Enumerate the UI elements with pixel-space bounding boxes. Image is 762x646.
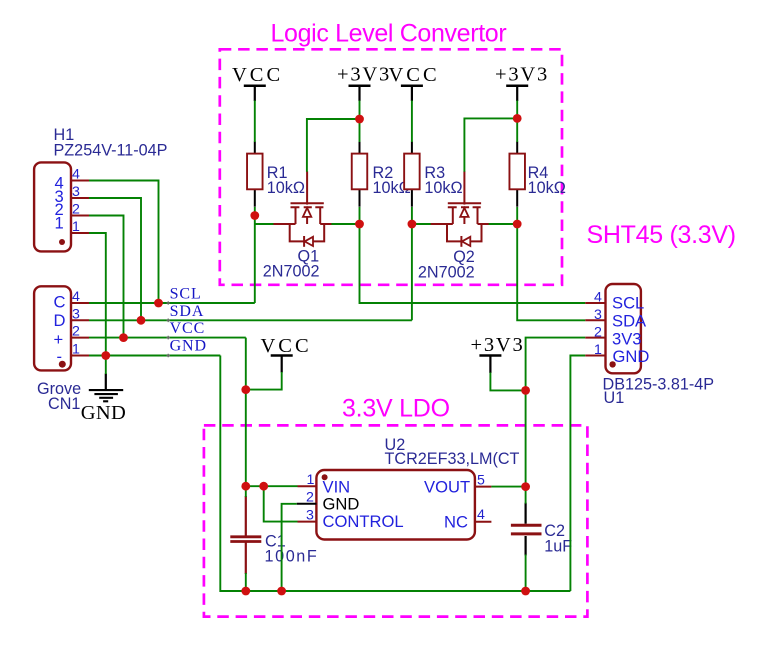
wire VIN row <box>246 485 298 487</box>
wire C2 top <box>525 487 527 504</box>
svg-text:1: 1 <box>72 342 80 358</box>
junction bus U2 GND <box>277 587 286 596</box>
U2 pin 3 stub <box>298 521 317 523</box>
net label SCL <box>167 285 202 305</box>
wire C1 top <box>245 486 247 497</box>
CN1 pin 1 stub <box>71 355 89 357</box>
H1 pin-1 marker <box>59 239 65 245</box>
net label GND <box>167 338 207 358</box>
svg-text:Logic Level Convertor: Logic Level Convertor <box>271 20 507 48</box>
net label SDA <box>167 303 205 322</box>
svg-text:10kΩ: 10kΩ <box>267 179 305 197</box>
svg-text:CN1: CN1 <box>48 395 80 413</box>
wire VOUT to C2 column <box>491 486 525 488</box>
wire U2 GND pin drop <box>282 504 297 591</box>
wire GND stem <box>105 356 107 375</box>
junction SDA row <box>137 316 146 325</box>
junction VCC tap <box>241 385 250 394</box>
wire Q1 source to gate wire <box>255 223 274 225</box>
U2 pin 2 stub (black) <box>297 503 317 505</box>
power VCC top-right <box>389 64 440 101</box>
svg-text:CONTROL: CONTROL <box>323 512 404 531</box>
svg-text:SCL: SCL <box>170 285 202 302</box>
junction R1 bottom <box>250 211 259 220</box>
wire GND row <box>89 355 220 357</box>
junction bus C1 <box>241 587 250 596</box>
svg-text:1: 1 <box>307 472 315 488</box>
transistor Q1 <box>263 171 332 280</box>
ground symbol <box>81 374 126 425</box>
U1 pin 3 stub <box>585 319 605 321</box>
regulator U2 <box>297 436 520 540</box>
svg-text:GND: GND <box>170 338 207 355</box>
U1 pin 4 stub <box>585 302 605 304</box>
resistor R1 <box>247 142 305 207</box>
junction Q2 gate +3V3 <box>513 114 522 123</box>
svg-text:SDA: SDA <box>612 312 647 331</box>
svg-text:+3V3: +3V3 <box>337 64 391 86</box>
svg-text:1uF: 1uF <box>544 538 572 556</box>
svg-text:TCR2EF33,LM(CT: TCR2EF33,LM(CT <box>385 450 520 468</box>
wire Q2 drain <box>489 223 518 225</box>
connector CN1 Grove <box>34 286 89 413</box>
svg-text:+3V3: +3V3 <box>495 64 549 86</box>
svg-text:3: 3 <box>594 307 602 323</box>
svg-text:C: C <box>54 292 66 311</box>
junction GND row <box>101 351 110 360</box>
U1 pin-1 marker <box>609 361 615 367</box>
svg-text:GND: GND <box>323 494 360 513</box>
title Logic Level Convertor <box>271 20 507 48</box>
wire VCC middle symbol tap <box>246 372 282 390</box>
junction bus C2 <box>521 587 530 596</box>
svg-text:3V3: 3V3 <box>612 329 642 348</box>
svg-text:VCC: VCC <box>232 64 283 86</box>
svg-text:2: 2 <box>594 325 602 341</box>
wire +3V3-2 column through R4 <box>517 101 585 321</box>
junction Q1 drain <box>355 220 364 229</box>
wire SCL row <box>89 302 255 304</box>
wire H1 pin3 to SDA column <box>89 198 141 320</box>
U2 pin 1 stub <box>298 485 317 487</box>
svg-text:2N7002: 2N7002 <box>263 263 320 281</box>
junction VIN right <box>259 482 268 491</box>
U1 pin 2 stub <box>585 337 605 339</box>
power +3V3 top-right <box>495 64 549 102</box>
U2 pin 5 stub <box>475 486 492 488</box>
wire VCC column down to VIN <box>245 338 247 487</box>
dashed box 3.3V LDO <box>204 425 588 616</box>
svg-text:4: 4 <box>594 290 602 306</box>
wire VCC row <box>89 337 246 339</box>
CN1 pin 4 stub <box>71 302 89 304</box>
resistor R4 <box>509 142 565 207</box>
resistor R2 <box>352 142 411 207</box>
H1 pin 2 stub <box>71 215 89 217</box>
wire H1 pin2 to VCC column <box>89 216 124 338</box>
svg-text:GND: GND <box>81 402 126 424</box>
svg-text:GND: GND <box>613 347 650 366</box>
wire Q2 gate jog <box>464 118 517 171</box>
wire +3V3-1 column through R2 <box>360 101 586 304</box>
wire C2 bottom <box>525 555 527 592</box>
power +3V3 top-left <box>337 64 391 102</box>
svg-text:SHT45 (3.3V): SHT45 (3.3V) <box>587 221 736 249</box>
junction SCL row <box>154 299 163 308</box>
connector U1 <box>585 284 714 407</box>
H1 pin 1 stub <box>71 232 89 234</box>
svg-text:3.3V LDO: 3.3V LDO <box>342 395 450 423</box>
svg-text:4: 4 <box>72 167 80 183</box>
junction VOUT <box>521 482 530 491</box>
svg-text:10kΩ: 10kΩ <box>424 179 462 197</box>
svg-text:1: 1 <box>55 213 64 232</box>
power +3V3 middle <box>471 334 525 373</box>
svg-text:4: 4 <box>477 507 485 523</box>
junction Q2 source <box>408 220 417 229</box>
wire Q1 drain to +3V3 column <box>331 223 359 225</box>
junction VCC row <box>119 333 128 342</box>
junction VIN left <box>241 482 250 491</box>
svg-text:U1: U1 <box>604 389 625 407</box>
svg-text:-: - <box>57 347 63 366</box>
svg-text:1: 1 <box>72 219 80 235</box>
svg-text:2: 2 <box>72 202 80 218</box>
U1 pin 1 stub <box>585 355 605 357</box>
wire Q1 gate jog <box>307 119 360 172</box>
junction +3V3 tap <box>521 386 530 395</box>
U2 pin 4 stub (NC) <box>475 521 492 523</box>
power VCC top-left <box>232 64 283 101</box>
svg-text:2: 2 <box>306 490 314 506</box>
svg-text:5: 5 <box>477 472 485 488</box>
power VCC middle <box>261 335 312 373</box>
svg-text:VCC: VCC <box>389 64 440 86</box>
svg-text:D: D <box>54 311 66 330</box>
resistor R3 <box>404 142 462 207</box>
svg-text:3: 3 <box>306 507 314 523</box>
svg-text:10kΩ: 10kΩ <box>528 179 566 197</box>
svg-text:2N7002: 2N7002 <box>418 264 475 282</box>
H1 pin 3 stub <box>71 197 89 199</box>
svg-text:VOUT: VOUT <box>424 477 470 496</box>
svg-text:NC: NC <box>444 512 468 531</box>
wire U1 GND down <box>570 356 585 592</box>
wire Q2 source <box>412 223 431 225</box>
svg-text:VCC: VCC <box>261 335 312 357</box>
svg-text:SCL: SCL <box>612 294 644 313</box>
label SHT45 (3.3V) <box>587 221 736 249</box>
svg-text:100nF: 100nF <box>265 548 319 566</box>
svg-text:3: 3 <box>72 306 80 322</box>
wire VCC1 column through R1 to SCL <box>254 101 256 304</box>
dashed box Logic Level Convertor <box>220 49 562 284</box>
U2 pin-1 marker <box>322 474 328 480</box>
svg-text:SDA: SDA <box>170 303 205 320</box>
wire GND column down to bus <box>220 356 570 592</box>
wire +3V3 middle symbol tap <box>490 373 525 391</box>
CN1 pin 2 stub <box>71 337 89 339</box>
H1 pin 4 stub <box>71 180 89 182</box>
wire H1 pin1 to GND column <box>89 233 106 356</box>
wire SDA row <box>89 319 412 321</box>
svg-text:4: 4 <box>72 289 80 305</box>
svg-text:3: 3 <box>72 184 80 200</box>
capacitor C1 <box>230 496 318 574</box>
title 3.3V LDO <box>342 395 450 423</box>
capacitor C2 <box>511 503 572 556</box>
junction Q1 gate +3V3 <box>355 115 364 124</box>
wire U1 3V3 column <box>526 338 586 487</box>
wire C1 bottom <box>245 573 247 591</box>
wire H1 pin4 to SCL column <box>89 181 159 304</box>
svg-text:2: 2 <box>72 324 80 340</box>
wire VCC2 column through R3 to SDA row <box>411 101 413 321</box>
svg-text:+3V3: +3V3 <box>471 334 525 356</box>
svg-text:PZ254V-11-04P: PZ254V-11-04P <box>54 142 168 160</box>
junction Q2 drain <box>513 220 522 229</box>
svg-text:1: 1 <box>594 342 602 358</box>
transistor Q2 <box>418 171 489 281</box>
CN1 pin 3 stub <box>71 319 89 321</box>
svg-text:VCC: VCC <box>170 320 206 337</box>
connector H1 <box>34 126 167 251</box>
CN1 pin-1 marker <box>59 361 66 368</box>
net label VCC <box>167 320 206 339</box>
wire VIN to CONTROL loop <box>264 486 298 521</box>
